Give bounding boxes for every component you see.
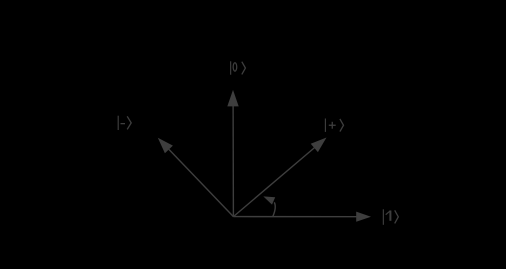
label |-> : ket bracket <box>127 116 131 129</box>
label |-> : minus <box>121 123 126 125</box>
node: |+> arrowhead <box>311 138 327 153</box>
wire: |0> axis shaft <box>232 105 234 217</box>
label |0> : ket bracket <box>242 62 246 75</box>
wire: |+> vector shaft <box>233 146 316 217</box>
node: angle arc arrowhead <box>263 196 275 204</box>
wire: |1> axis shaft <box>233 216 357 218</box>
node: |0> arrowhead <box>227 90 238 107</box>
label |+> : bar <box>324 119 326 132</box>
label |+> : ket bracket <box>340 119 344 132</box>
label |1> : one stem <box>389 211 391 221</box>
label |1> : bar <box>382 209 384 225</box>
node: |1> arrowhead <box>356 212 371 222</box>
label |+> : plus vertical <box>331 122 333 129</box>
label |+> : plus horizontal <box>329 124 336 126</box>
label |1> : one flag <box>386 211 391 215</box>
wire: angle arc <box>273 202 275 216</box>
label |0> : bar <box>230 61 232 74</box>
label |1> : ket bracket <box>395 210 399 223</box>
node: |-> arrowhead <box>158 138 173 153</box>
label |0> : zero <box>233 63 237 71</box>
wire: |-> vector shaft <box>169 149 234 216</box>
label |-> : bar <box>117 116 119 130</box>
